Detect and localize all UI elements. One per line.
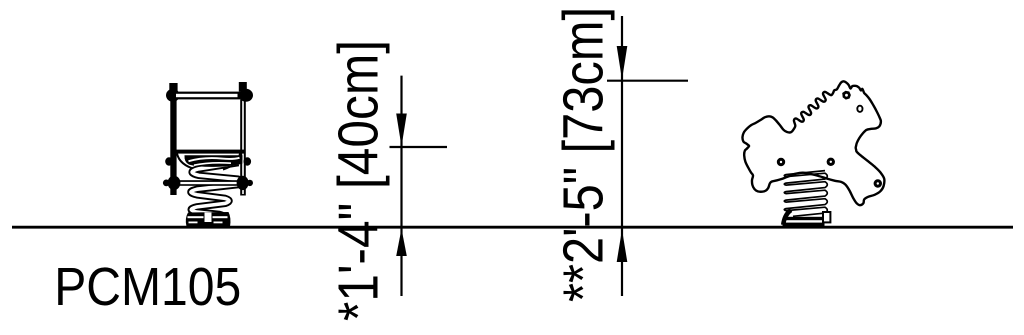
spring rider (rear view) left post: [166, 83, 180, 195]
dimension 2 up arrow: [617, 230, 628, 263]
right mid knob: [244, 157, 252, 165]
ground line: [12, 226, 1013, 229]
handlebar tube: [176, 92, 240, 100]
horse bolt rear shoulder: [827, 158, 835, 166]
svg-text:**2'-5" [73cm]: **2'-5" [73cm]: [552, 7, 616, 302]
horse bolt leg: [874, 179, 882, 187]
dimension 1 up arrow: [396, 229, 407, 256]
dimension 1 tick line: [390, 146, 448, 148]
foot bar tube: [176, 180, 240, 186]
svg-text:*1'-4" [40cm]: *1'-4" [40cm]: [327, 40, 391, 321]
horse base bracket: [823, 212, 830, 222]
dimension 2 vertical line: [621, 16, 623, 296]
dimension 1 vertical line: [400, 76, 402, 296]
dimension 2 down arrow: [617, 46, 628, 80]
foot bar right ball: [237, 176, 253, 190]
svg-text:PCM105: PCM105: [54, 257, 241, 317]
right hanger arc: [223, 154, 240, 170]
seat bar: [172, 150, 244, 154]
dimension 1 down arrow: [396, 114, 407, 147]
dimension 2 tick line: [607, 80, 688, 82]
spring base block: [186, 212, 231, 227]
horse base plate: [783, 210, 825, 226]
left mid knob: [165, 157, 173, 165]
main coil spring (big, outlined tube): [191, 163, 243, 220]
spring top mass under seat: [184, 155, 242, 167]
spring rider (rear view) right post: [239, 82, 253, 196]
horse bolt front shoulder: [777, 158, 785, 166]
horse nostril: [857, 106, 862, 112]
horse coil spring (thin ribbon): [784, 171, 827, 217]
foot bar left ball: [163, 176, 181, 190]
left hanger arc: [177, 154, 196, 170]
horse eye: [842, 91, 851, 100]
horse rider outline: [742, 81, 884, 205]
